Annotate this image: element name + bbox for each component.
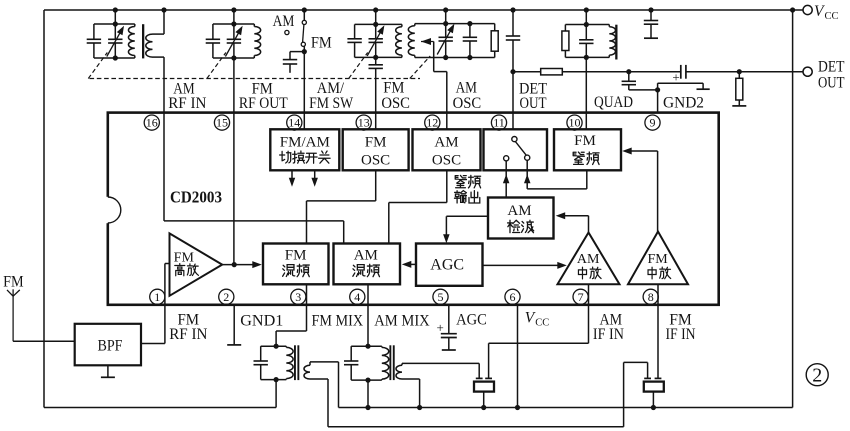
svg-text:AM: AM [434, 134, 458, 150]
svg-text:FM MIX: FM MIX [312, 312, 364, 329]
svg-text:FM/AM: FM/AM [280, 134, 330, 150]
svg-text:9: 9 [650, 116, 656, 130]
svg-text:AM: AM [456, 79, 477, 96]
svg-text:+: + [437, 320, 444, 335]
svg-text:IF IN: IF IN [665, 326, 695, 343]
svg-text:15: 15 [216, 116, 228, 130]
svg-text:AM: AM [354, 247, 378, 263]
svg-text:2: 2 [812, 365, 822, 387]
svg-text:FM: FM [174, 250, 195, 265]
svg-text:OSC: OSC [361, 153, 390, 169]
svg-text:GND1: GND1 [240, 312, 283, 329]
svg-text:DET: DET [818, 59, 845, 76]
svg-text:14: 14 [288, 116, 300, 130]
svg-text:FM: FM [285, 247, 307, 263]
svg-text:FM: FM [311, 35, 332, 52]
svg-text:AM: AM [577, 252, 600, 267]
svg-text:OSC: OSC [381, 95, 410, 112]
svg-text:13: 13 [358, 116, 370, 130]
svg-text:V: V [814, 3, 825, 20]
svg-text:6: 6 [510, 290, 516, 304]
svg-text:AM: AM [273, 13, 295, 30]
svg-text:2: 2 [223, 290, 229, 304]
svg-text:5: 5 [438, 290, 444, 304]
svg-text:FM: FM [574, 133, 596, 149]
svg-text:OUT: OUT [818, 74, 845, 91]
svg-text:OSC: OSC [453, 95, 482, 112]
svg-text:GND2: GND2 [663, 94, 704, 111]
svg-text:AGC: AGC [456, 312, 487, 329]
svg-text:CC: CC [825, 11, 839, 22]
svg-text:FM: FM [647, 252, 668, 267]
svg-text:3: 3 [295, 290, 301, 304]
svg-text:FM: FM [365, 134, 387, 150]
svg-text:CD2003: CD2003 [170, 188, 222, 207]
svg-text:11: 11 [493, 116, 505, 130]
svg-text:RF OUT: RF OUT [239, 95, 288, 112]
svg-text:OSC: OSC [432, 153, 461, 169]
svg-text:7: 7 [578, 290, 584, 304]
svg-text:AGC: AGC [430, 257, 464, 274]
svg-text:RF IN: RF IN [169, 326, 208, 343]
svg-text:1: 1 [154, 290, 160, 304]
svg-text:FM: FM [383, 79, 404, 96]
svg-text:IF IN: IF IN [593, 326, 624, 343]
svg-text:V: V [525, 309, 536, 326]
svg-text:AM: AM [507, 203, 531, 219]
svg-text:FM SW: FM SW [309, 95, 354, 112]
svg-text:16: 16 [146, 116, 158, 130]
svg-text:8: 8 [648, 290, 654, 304]
svg-text:AM MIX: AM MIX [374, 312, 430, 329]
svg-text:QUAD: QUAD [594, 94, 633, 111]
svg-text:CC: CC [535, 317, 549, 328]
svg-text:+: + [672, 69, 679, 84]
svg-text:RF IN: RF IN [168, 95, 207, 112]
svg-text:10: 10 [569, 116, 581, 130]
svg-text:FM: FM [3, 273, 24, 290]
svg-text:OUT: OUT [520, 95, 547, 112]
svg-text:4: 4 [354, 290, 360, 304]
svg-text:BPF: BPF [98, 337, 123, 354]
svg-text:12: 12 [426, 116, 438, 130]
